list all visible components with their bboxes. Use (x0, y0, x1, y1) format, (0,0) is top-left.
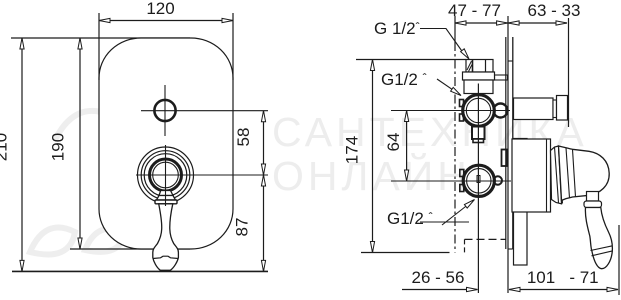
leader G1/2 low (442, 205, 468, 225)
spout pipe body (514, 98, 554, 120)
arrow 64 bottom (405, 170, 409, 181)
arrow 120 right (222, 18, 233, 22)
grip collar (584, 201, 602, 208)
pipe stub G1/2 top (466, 60, 493, 73)
svg-text:G1/2 ˆ: G1/2 ˆ (381, 70, 427, 89)
upper centerline (391, 110, 510, 112)
collar cylinder (512, 139, 551, 212)
dim 47-77 / 63-33 line (455, 22, 567, 24)
svg-text:- 71: - 71 (569, 268, 598, 287)
svg-text:26 - 56: 26 - 56 (412, 268, 465, 287)
svg-text:G1/2 ˆ: G1/2 ˆ (387, 209, 433, 228)
watermark swirl (30, 111, 125, 255)
bell skirt ridge (555, 146, 563, 204)
lower centerline (391, 180, 511, 182)
down stub (472, 127, 485, 140)
svg-text:64: 64 (384, 133, 403, 152)
knob band (153, 256, 178, 258)
rosette inner ring (153, 162, 179, 188)
lever neck flare (157, 196, 176, 201)
arrow 210 bottom (20, 260, 24, 271)
plate line C (512, 37, 514, 249)
dim 120 extension right (232, 13, 234, 80)
svg-text:120: 120 (146, 0, 174, 18)
grip neck (587, 192, 599, 202)
bell skirt (551, 146, 562, 204)
arrow 101-71 left (509, 287, 520, 291)
lever flange (155, 200, 177, 204)
top extension line (11, 37, 190, 39)
lever neck (159, 191, 173, 196)
hole circle (154, 100, 175, 121)
arrow 26-56 right (467, 287, 478, 291)
lower inner mark (477, 176, 480, 183)
svg-text:190: 190 (49, 133, 68, 161)
grip body (585, 208, 612, 269)
arrow 190 bottom (78, 238, 82, 249)
arrow 64 top (405, 111, 409, 122)
svg-text:47 - 77: 47 - 77 (448, 1, 501, 20)
collar end ring (546, 139, 548, 212)
lower block right (502, 150, 508, 167)
svg-text:87: 87 (233, 218, 252, 237)
svg-text:63 - 33: 63 - 33 (528, 1, 581, 20)
arrow 58 bottom (261, 164, 265, 175)
upper left tabs (460, 100, 464, 107)
svg-text:101: 101 (527, 268, 555, 287)
svg-text:ОНЛАЙН: ОНЛАЙН (272, 153, 471, 199)
svg-text:174: 174 (343, 136, 362, 164)
dim 210 line (21, 38, 23, 271)
plate side lines (506, 37, 513, 249)
rosette ring r24.5 (141, 151, 190, 200)
svg-text:58: 58 (234, 128, 253, 147)
leader G1/2 mid (437, 79, 454, 90)
arrow 63-33 left (508, 21, 519, 25)
plate line A (505, 37, 507, 249)
bell ridge (566, 148, 576, 198)
valve body group (460, 60, 508, 197)
upper valve ring (463, 95, 495, 127)
hole circle crosshair (141, 110, 268, 112)
arrow 47-77 left (455, 21, 466, 25)
dim 190 line (79, 38, 81, 249)
arrow 174 top (370, 60, 374, 71)
arrow 120 left (99, 18, 110, 22)
arrow 87 bottom (261, 260, 265, 271)
mounting block D (514, 139, 528, 266)
spout pipe groove (553, 100, 557, 118)
arrow 190 top (78, 38, 82, 49)
174 bottom extension (361, 252, 450, 254)
arrow 47-77 right (497, 21, 508, 25)
svg-text:G 1/2ˆ: G 1/2ˆ (374, 19, 420, 38)
dashed step (465, 238, 507, 240)
upper lobe (494, 104, 508, 118)
spout pipe cap (557, 96, 568, 121)
ext line plate (507, 16, 509, 293)
dim 120 extension left (98, 13, 100, 80)
lower lobe (494, 176, 502, 184)
lever stem and knob (153, 204, 179, 270)
rosette crosshair (136, 174, 268, 176)
bottom extension line (plate bottom level) (70, 248, 190, 250)
arrow 87 top (261, 175, 265, 186)
flange (463, 72, 495, 80)
rosette bold ring (150, 159, 182, 191)
stray line y222 (420, 221, 469, 223)
jog y249 (508, 248, 513, 250)
bell dome (559, 146, 610, 200)
flange ext (495, 75, 508, 80)
dim 120 line (99, 20, 233, 22)
grip band (591, 246, 613, 256)
lower valve ring (463, 165, 494, 196)
dim 64 line (406, 111, 408, 182)
arrow 101-71 right (607, 287, 618, 291)
dim 174 line (372, 60, 374, 253)
escutcheon plate (99, 38, 233, 249)
dim 58-87 line (263, 111, 265, 272)
body top (464, 80, 493, 94)
leader G1/2 top (420, 29, 464, 55)
svg-text:210: 210 (0, 133, 11, 161)
arrow 63-33 right (556, 21, 567, 25)
rosette ring r28 (138, 147, 194, 203)
arrow 58 top (261, 111, 265, 122)
right ext line (618, 225, 620, 295)
tick y61 (508, 60, 513, 62)
arrow 174 bottom (370, 242, 374, 253)
174 top extension (356, 59, 466, 61)
ext line wall (dash-dot) (454, 16, 456, 42)
vertical centerline body (477, 84, 479, 294)
ext line pipe end (568, 18, 570, 127)
bottom dims line (402, 289, 478, 291)
baseline (12, 270, 268, 272)
arrow 210 top (20, 38, 24, 49)
rosette ring r21.5 (144, 154, 187, 197)
lower left tabs (460, 170, 464, 177)
